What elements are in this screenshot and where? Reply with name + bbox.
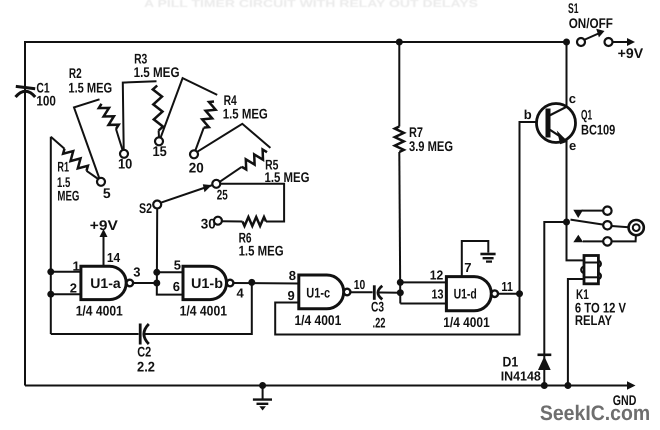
svg-text:S1: S1 <box>568 0 579 16</box>
U1-d part label <box>443 314 490 330</box>
svg-text:c: c <box>569 91 576 106</box>
node 15 contact <box>153 137 167 159</box>
SeekIC watermark <box>540 402 650 425</box>
node emitter relay junction <box>563 219 570 226</box>
GND label <box>613 392 637 408</box>
node C3 junction bottom <box>397 289 404 296</box>
svg-text:IN4148: IN4148 <box>501 369 541 384</box>
svg-text:100: 100 <box>36 93 56 109</box>
wire pin 1 <box>51 259 81 274</box>
svg-text:C3: C3 <box>371 299 384 315</box>
diode D1 <box>538 355 552 370</box>
wire relay junction to D1 <box>544 222 566 386</box>
node 25 contact <box>212 180 228 203</box>
resistor R2 <box>74 99 123 178</box>
svg-text:U1-c: U1-c <box>306 285 330 301</box>
R6 label <box>239 229 284 258</box>
relay coil K1 <box>581 256 601 284</box>
node coil gnd junction <box>564 382 571 389</box>
R2 label <box>68 65 112 95</box>
svg-text:13: 13 <box>432 286 444 301</box>
output jack <box>629 220 644 235</box>
R4 label <box>223 92 268 122</box>
capacitor C2 <box>140 324 149 345</box>
wire emitter <box>566 139 568 222</box>
svg-text:BC109: BC109 <box>581 122 615 138</box>
svg-text:6: 6 <box>173 279 180 294</box>
D1 label <box>501 354 541 384</box>
svg-text:b: b <box>524 107 532 122</box>
svg-text:10: 10 <box>354 277 366 292</box>
R7 label <box>409 124 453 154</box>
R3 label <box>134 51 180 80</box>
svg-text:15: 15 <box>153 143 167 159</box>
R1 label <box>57 158 79 203</box>
wire +9V arrow <box>613 38 635 46</box>
node pin3 junction <box>153 280 160 287</box>
svg-text:A PILL TIMER CIRCUIT WITH RELA: A PILL TIMER CIRCUIT WITH RELAY OUT DELA… <box>144 0 478 10</box>
node 20 contact <box>189 150 204 175</box>
wire pin 4 output <box>233 283 298 301</box>
svg-text:1/4 4001: 1/4 4001 <box>295 312 342 328</box>
svg-text:1.5 MEG: 1.5 MEG <box>68 80 112 96</box>
node 30 contact <box>201 216 222 232</box>
svg-text:2: 2 <box>70 281 77 296</box>
wire pin 7 ground <box>462 241 496 277</box>
wire coil to ground <box>568 279 584 386</box>
node center gnd junction <box>259 382 266 389</box>
svg-text:ON/OFF: ON/OFF <box>569 15 614 31</box>
node R7 rail junction <box>396 39 403 46</box>
node D1 gnd junction <box>541 382 548 389</box>
wire pin 2 <box>51 281 81 296</box>
U1-a part label <box>76 302 123 318</box>
svg-text:Q1: Q1 <box>581 107 592 123</box>
wire pin 11 output <box>498 279 520 294</box>
wire collector <box>566 42 568 107</box>
svg-text:3: 3 <box>133 265 140 280</box>
faint cropped title <box>144 0 478 10</box>
svg-text:D1: D1 <box>503 354 519 370</box>
svg-text:e: e <box>569 138 576 153</box>
wire base line <box>520 122 547 294</box>
relay armature <box>571 220 604 225</box>
capacitor C1 <box>16 86 36 97</box>
svg-text:S2: S2 <box>139 200 152 216</box>
svg-text:1.5 MEG: 1.5 MEG <box>265 169 310 185</box>
S1 label <box>568 0 613 31</box>
relay NO contact <box>573 235 636 246</box>
R5 label <box>265 156 310 185</box>
svg-text:+9V: +9V <box>90 217 119 233</box>
svg-text:10: 10 <box>118 155 132 171</box>
C2 label <box>137 343 155 374</box>
svg-text:25: 25 <box>217 187 228 203</box>
wire pin 13 <box>400 286 446 303</box>
ground symbol center <box>253 386 272 411</box>
resistor R3 <box>123 81 163 150</box>
wire C3 to junction <box>378 292 400 294</box>
svg-text:5: 5 <box>103 185 111 201</box>
switch S1 <box>577 29 613 46</box>
node pin11 junction <box>516 290 523 297</box>
svg-text:3.9 MEG: 3.9 MEG <box>409 138 453 154</box>
svg-text:7: 7 <box>464 260 471 275</box>
svg-text:11: 11 <box>501 279 513 294</box>
svg-text:1/4 4001: 1/4 4001 <box>76 302 123 318</box>
svg-text:C2: C2 <box>137 343 151 359</box>
C1 label <box>36 80 56 109</box>
svg-text:1/4 4001: 1/4 4001 <box>180 302 228 318</box>
svg-text:1.5 MEG: 1.5 MEG <box>223 106 268 122</box>
svg-text:9: 9 <box>288 288 295 303</box>
S2 label <box>139 200 152 216</box>
svg-text:1: 1 <box>73 259 80 274</box>
resistor R6 <box>220 184 284 226</box>
op-amp gate U1-d <box>446 277 498 311</box>
svg-text:R1: R1 <box>57 158 69 174</box>
svg-text:U1-d: U1-d <box>454 286 477 302</box>
wire pin 3 output <box>133 265 157 283</box>
svg-text:U1-b: U1-b <box>191 275 223 291</box>
node pin1 junction <box>47 268 54 275</box>
U1-b part label <box>180 302 228 318</box>
svg-text:20: 20 <box>189 159 204 175</box>
svg-text:2.2: 2.2 <box>137 359 155 375</box>
pin 8 label <box>289 268 296 283</box>
svg-text:5: 5 <box>174 258 181 273</box>
svg-text:RELAY: RELAY <box>575 312 613 328</box>
svg-text:8: 8 <box>289 268 296 283</box>
wire +9V top rail <box>25 41 567 43</box>
svg-text:1.5 MEG: 1.5 MEG <box>134 64 180 80</box>
wire pin 12 <box>400 267 446 282</box>
node C3 junction top <box>397 279 404 286</box>
svg-text:12: 12 <box>430 267 444 282</box>
wire GND bottom rail <box>25 381 636 390</box>
op-amp gate U1-a <box>81 266 133 299</box>
K1 labels <box>575 286 627 328</box>
Q1 labels <box>524 91 616 153</box>
node 5 contact <box>97 178 111 201</box>
svg-text:SeekIC.com: SeekIC.com <box>540 402 650 425</box>
resistor R7 <box>395 42 404 304</box>
wire S2 to gate inputs <box>157 209 183 295</box>
svg-text:.22: .22 <box>373 315 386 331</box>
resistor R1 <box>51 137 98 179</box>
resistor R5 <box>197 124 270 182</box>
pin 6 label <box>173 279 180 294</box>
C3 label <box>371 299 386 331</box>
+9V label right <box>618 45 644 61</box>
resistor R4 <box>161 78 218 151</box>
svg-text:4: 4 <box>237 286 245 301</box>
node pin5 junction <box>153 269 160 276</box>
wire pin 10 output <box>350 277 372 292</box>
wire left border <box>24 41 26 386</box>
node pin4 junction <box>248 279 255 286</box>
U1-c part label <box>295 312 342 328</box>
svg-text:U1-a: U1-a <box>90 275 121 291</box>
op-amp gate U1-c <box>299 275 351 309</box>
svg-text:1/4 4001: 1/4 4001 <box>443 314 490 330</box>
svg-text:MEG: MEG <box>57 187 79 203</box>
node collector rail junction <box>563 39 570 46</box>
op-amp gate U1-b <box>183 266 233 299</box>
svg-text:14: 14 <box>107 250 121 265</box>
wire pin 9 loop <box>275 288 519 335</box>
svg-text:+9V: +9V <box>618 45 644 61</box>
wire common node vertical <box>50 137 52 334</box>
wire pin 5 <box>157 258 183 273</box>
transistor Q1 <box>537 104 576 145</box>
switch S2 wiper <box>153 184 212 208</box>
capacitor C3 <box>374 285 382 300</box>
wire pin 14 +9V arrow <box>90 217 121 266</box>
wire emitter to coil <box>567 222 585 260</box>
svg-text:1.5 MEG: 1.5 MEG <box>239 242 284 258</box>
svg-text:30: 30 <box>201 216 216 232</box>
node pin2 junction <box>47 291 54 298</box>
relay NC contact <box>573 207 611 219</box>
relay pole contact <box>603 221 628 229</box>
node 10 contact <box>118 150 132 172</box>
wire C2 loop <box>51 282 252 334</box>
